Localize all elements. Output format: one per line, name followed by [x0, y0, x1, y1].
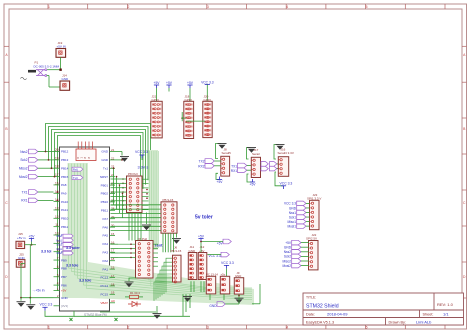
svg-text:Nss1: Nss1 — [289, 211, 296, 215]
wires J6 fan — [154, 258, 173, 301]
svg-text:VCC 3.3: VCC 3.3 — [280, 181, 293, 185]
wire J25 to GND rail — [21, 262, 25, 264]
svg-text:VCC 3.3: VCC 3.3 — [40, 302, 53, 306]
connector J8 Serail5 — [221, 156, 230, 176]
svg-text:VCC 3.3: VCC 3.3 — [135, 150, 148, 154]
svg-text:3.3 tole: 3.3 tole — [66, 263, 78, 267]
connector J12 +5V — [198, 253, 207, 280]
text 5v toler — [195, 214, 213, 220]
svg-text:6: 6 — [57, 265, 59, 269]
svg-text:REV: 1.0: REV: 1.0 — [437, 302, 454, 307]
svg-text:28: 28 — [111, 207, 115, 211]
svg-text:18: 18 — [111, 257, 115, 261]
svg-text:Drawn By:: Drawn By: — [389, 320, 407, 324]
svg-text:13: 13 — [55, 206, 59, 210]
svg-text:STM32 Shield: STM32 Shield — [306, 303, 339, 309]
mcu U3 pin +5V — [54, 287, 67, 293]
svg-text:1: 1 — [48, 5, 50, 9]
svg-text:29: 29 — [111, 215, 115, 219]
connector J15 — [16, 241, 25, 248]
svg-text:Text: Text — [155, 242, 164, 247]
power flag VCC 3.3 (J10) — [221, 261, 234, 276]
connector J25 — [16, 260, 25, 268]
svg-text:PC15: PC15 — [100, 293, 108, 297]
svg-text:VCC 3.3: VCC 3.3 — [201, 80, 214, 84]
wire +5V down — [29, 245, 31, 298]
wires crossing right of U3 — [113, 167, 124, 217]
text 3.3 toler — [66, 246, 80, 250]
svg-text:27: 27 — [111, 198, 115, 202]
svg-text:21: 21 — [111, 148, 115, 152]
wire bundle vertical (x150) — [149, 150, 159, 250]
ground (U3 GND) — [120, 157, 129, 162]
svg-text:PB9: PB9 — [61, 258, 67, 262]
svg-text:+5V IN: +5V IN — [57, 45, 66, 49]
svg-text:17: 17 — [111, 249, 115, 253]
text 3.3 tole 3 — [79, 278, 91, 282]
svg-text:PB 9-15: PB 9-15 — [171, 249, 182, 253]
svg-text:17: 17 — [55, 173, 59, 177]
power flag VCC33 (J16) — [275, 172, 292, 189]
svg-text:EasyEDA V5.1.3: EasyEDA V5.1.3 — [306, 320, 334, 324]
svg-text:PA8: PA8 — [61, 183, 67, 187]
svg-text:24: 24 — [111, 173, 115, 177]
net flag Sck2 — [20, 158, 53, 163]
svg-text:1: 1 — [48, 325, 50, 329]
svg-text:16: 16 — [111, 240, 115, 244]
svg-text:Serail5: Serail5 — [222, 151, 232, 155]
wire bundle vertical tails — [142, 248, 156, 286]
svg-text:4: 4 — [57, 282, 59, 286]
wires U3 right lower — [111, 244, 119, 257]
connector J15 label — [17, 232, 26, 240]
wire junctions (flags) — [45, 151, 59, 202]
svg-text:SPI1 3.3 V: SPI1 3.3 V — [307, 196, 321, 200]
wire J15 to +5V — [25, 242, 36, 246]
svg-text:PA10: PA10 — [61, 200, 68, 204]
svg-text:Nss2: Nss2 — [284, 250, 291, 254]
svg-text:4: 4 — [286, 325, 288, 329]
wire jack to J14 — [47, 76, 61, 88]
power flag +5V (spare) — [166, 81, 173, 92]
svg-text:Miso1: Miso1 — [287, 220, 296, 224]
net flag RX1 — [21, 198, 53, 203]
led D1 — [128, 302, 141, 307]
net flag RX2 — [198, 164, 221, 169]
resistor network P8 Pull label — [128, 172, 138, 176]
svg-text:2: 2 — [127, 5, 129, 9]
net labels RxU TxU — [72, 167, 83, 180]
svg-text:TX1: TX1 — [22, 190, 28, 194]
connector J23 label — [307, 193, 321, 201]
svg-text:Nss2: Nss2 — [20, 150, 27, 154]
svg-text:Miso2: Miso2 — [19, 167, 28, 171]
connector J16 Serail3 — [278, 157, 288, 177]
svg-text:→+5v in: →+5v in — [32, 288, 45, 292]
net flag in (J16 left) — [270, 162, 277, 171]
wires U3 to PB 9-15 — [111, 205, 162, 231]
svg-text:PB 9-15: PB 9-15 — [163, 198, 174, 202]
net flag VCC 3.3 (mid) — [208, 252, 230, 258]
net labels (Miso/Nss/Sck/Mosi bubbles) — [56, 234, 73, 255]
wires PB9-15 to J6 — [163, 233, 173, 252]
connector J18 GPIO — [184, 95, 194, 139]
svg-text:5: 5 — [57, 273, 59, 277]
power flag +5V inv (J8) — [216, 173, 223, 184]
svg-text:+5V: +5V — [217, 180, 224, 184]
svg-text:PB13: PB13 — [61, 158, 69, 162]
connector J20 GPIO — [203, 95, 212, 138]
wire right elbow — [252, 284, 260, 304]
svg-text:Mosi: Mosi — [57, 247, 63, 251]
ground (left 2) — [26, 298, 35, 310]
svg-text:Miso: Miso — [57, 234, 63, 238]
ground (below PB 9-15) — [172, 233, 181, 244]
svg-text:RX2: RX2 — [198, 165, 204, 169]
net flag +5V (mid) — [200, 239, 231, 245]
svg-text:PB15: PB15 — [61, 175, 69, 179]
connector J17 Serail — [251, 157, 260, 177]
svg-text:18: 18 — [55, 165, 59, 169]
wire GND rail — [20, 263, 53, 298]
svg-text:PA11: PA11 — [61, 208, 68, 212]
svg-text:Date:: Date: — [306, 313, 315, 317]
wire junctions (pull1 right) — [146, 189, 148, 199]
connector J21 GPIO — [151, 95, 162, 138]
connector P1 DC-005 — [21, 61, 60, 80]
svg-text:PA1: PA1 — [103, 267, 109, 271]
svg-text:+5V: +5V — [61, 289, 66, 293]
svg-text:3: 3 — [207, 325, 209, 329]
resistor R1 — [125, 291, 143, 298]
svg-text:Tx1: Tx1 — [103, 167, 108, 171]
wire junctions (pull1 left) — [122, 178, 124, 210]
wire bottom rail — [74, 312, 190, 316]
net flag RX1 (J17 left) — [231, 168, 252, 173]
svg-text:Sck1: Sck1 — [56, 243, 62, 247]
wire J18 to J20 — [186, 120, 205, 122]
connector J6 PB 9-15 — [173, 255, 182, 283]
svg-text:PC14: PC14 — [100, 284, 108, 288]
connector J23 SPI1 — [310, 200, 320, 229]
svg-text:PB12: PB12 — [61, 150, 69, 154]
connector J11 label — [189, 245, 197, 253]
wire J19 down — [47, 57, 62, 71]
mcu U3 right pins — [100, 148, 115, 297]
svg-text:16: 16 — [55, 181, 59, 185]
wire bundle vertical (through U3) — [0, 0, 1, 1]
ground (J8) — [216, 144, 227, 159]
svg-text:20: 20 — [55, 148, 59, 152]
mcu U3 left pins — [54, 148, 69, 287]
usb connector (on U3) — [76, 142, 96, 161]
svg-text:5: 5 — [366, 5, 368, 9]
svg-text:+5V: +5V — [29, 234, 36, 238]
svg-text:5: 5 — [366, 325, 368, 329]
svg-text:2: 2 — [127, 325, 129, 329]
svg-text:PB01: PB01 — [101, 183, 109, 187]
svg-text:+5V: +5V — [285, 241, 292, 245]
text Text — [155, 242, 164, 247]
wires pull1 to PA Pull — [129, 213, 141, 241]
net flag Nss2 — [20, 149, 53, 154]
svg-text:VCC 3.3: VCC 3.3 — [284, 202, 296, 206]
ground (below PA Pull) — [125, 278, 138, 287]
svg-text:PB6: PB6 — [61, 283, 67, 287]
mcu U3 name — [84, 313, 107, 317]
net flag TX1 (J17 left) — [231, 163, 251, 168]
svg-text:DC-005 5.5-2.1MM: DC-005 5.5-2.1MM — [34, 64, 60, 68]
svg-text:PB14: PB14 — [61, 166, 69, 170]
ground (left 1) — [17, 298, 26, 307]
net flags SPI1 — [284, 201, 310, 228]
mcu U3 pin VBAT — [100, 299, 115, 305]
connector PB 9-15 — [161, 202, 177, 233]
ground (J17) — [247, 148, 257, 160]
svg-text:17: 17 — [111, 274, 115, 278]
text 3.3 tole 2 — [66, 263, 78, 267]
svg-text:+5V: +5V — [217, 241, 224, 245]
svg-text:PC13: PC13 — [100, 276, 108, 280]
svg-text:+5V: +5V — [250, 183, 257, 187]
svg-text:Mosi2: Mosi2 — [19, 175, 28, 179]
svg-text:18: 18 — [111, 282, 115, 286]
svg-text:+5V: +5V — [198, 234, 205, 238]
title block — [303, 293, 464, 325]
connector J8 label — [222, 148, 232, 156]
svg-text:PB7: PB7 — [61, 275, 67, 279]
svg-text:Mosi2: Mosi2 — [282, 264, 291, 268]
connector J14 GND — [60, 74, 70, 91]
svg-text:4: 4 — [286, 5, 288, 9]
connector J9 label — [235, 271, 241, 278]
net flag Miso2 — [19, 166, 54, 171]
wires U3 to pull1 — [111, 179, 127, 209]
svg-text:11: 11 — [55, 223, 59, 227]
connector J5 label — [206, 272, 218, 276]
svg-text:GND: GND — [209, 304, 217, 308]
svg-text:GND: GND — [289, 206, 297, 210]
wires pull1 right — [142, 179, 153, 209]
ground (J16) — [274, 145, 285, 160]
ground (below J9) — [235, 294, 244, 303]
wires PA Pull right — [153, 244, 158, 266]
no-connect x1 — [70, 318, 73, 321]
svg-text:RX1: RX1 — [21, 199, 27, 203]
svg-text:Serail3 3.3V: Serail3 3.3V — [278, 151, 294, 155]
text 3.3V sur — [138, 166, 153, 170]
svg-text:TX1: TX1 — [231, 164, 237, 168]
connector J19 +5V IN — [56, 41, 66, 58]
connector J11 GND — [188, 253, 197, 280]
svg-text:PA7: PA7 — [103, 217, 109, 221]
svg-text:Miso2: Miso2 — [282, 259, 291, 263]
svg-text:GND: GND — [284, 246, 292, 250]
svg-text:[3V3]: [3V3] — [61, 304, 68, 308]
mcu U3 pin GND — [54, 294, 69, 300]
junction on J18 — [181, 112, 186, 121]
power flag VCC 3.3 (U3) — [135, 150, 148, 160]
svg-text:19: 19 — [55, 156, 59, 160]
wires below J5 — [183, 281, 224, 316]
power flag +5V inv (J17) — [247, 174, 256, 187]
svg-text:Sck1: Sck1 — [289, 215, 296, 219]
connector J10 label — [221, 272, 226, 276]
svg-text:GND: GND — [101, 150, 109, 154]
net flag out (J17 right) — [261, 162, 269, 171]
wire bundle elbow — [62, 163, 254, 305]
svg-text:PB11: PB11 — [101, 209, 108, 213]
mcu U3 pin 3V3 — [54, 304, 69, 308]
power flag VCC 3.3 (J20) — [201, 80, 214, 101]
svg-text:12: 12 — [55, 215, 59, 219]
svg-text:+5V in: +5V in — [17, 236, 26, 240]
resistor network PA Pull label — [138, 237, 148, 241]
net flag TX2 — [199, 159, 221, 164]
svg-text:GND: GND — [101, 158, 109, 162]
power flag +5V (J12) — [198, 234, 205, 252]
svg-text:PA3: PA3 — [103, 251, 109, 255]
svg-text:RxU: RxU — [73, 167, 78, 171]
power flag VCC 3.3 (bottom) — [40, 302, 53, 310]
svg-text:PB10: PB10 — [101, 200, 109, 204]
connector J6 label — [171, 246, 182, 254]
resistor network PA Pull — [136, 241, 154, 279]
connector J17 label — [252, 148, 260, 156]
ground (mid) — [142, 213, 151, 231]
svg-text:30: 30 — [111, 224, 115, 228]
svg-text:+5V: +5V — [187, 81, 194, 85]
svg-text:+5V: +5V — [154, 81, 161, 85]
connector J5 PC13-14 — [206, 276, 215, 294]
svg-text:19: 19 — [111, 291, 115, 295]
connector J12 label — [199, 245, 205, 253]
svg-text:PB10: PB10 — [61, 217, 69, 221]
svg-text:TITLE:: TITLE: — [306, 296, 316, 300]
svg-text:1/1: 1/1 — [443, 312, 449, 317]
svg-text:2018-04-09: 2018-04-09 — [327, 312, 348, 317]
svg-text:RX1: RX1 — [231, 169, 237, 173]
svg-text:Sck2: Sck2 — [20, 158, 27, 162]
svg-text:PB02: PB02 — [101, 192, 109, 196]
connector J25 label — [18, 252, 26, 260]
ground (below J5 area) — [183, 297, 192, 302]
svg-text:5v toler: 5v toler — [195, 214, 213, 220]
net flag GND (bottom) — [209, 297, 239, 308]
net flags SPI2 — [282, 240, 309, 268]
connector PB 9-15 label — [163, 198, 174, 202]
wires U3 GND — [115, 152, 123, 161]
svg-text:PA5: PA5 — [103, 234, 109, 238]
svg-text:Sheet:: Sheet: — [423, 313, 434, 317]
svg-text:TxU: TxU — [73, 176, 78, 180]
svg-text:Nss1: Nss1 — [56, 238, 62, 242]
net flag TX1 — [22, 190, 54, 195]
svg-text:3.3 tole: 3.3 tole — [79, 278, 91, 282]
wire +5V to J21 — [156, 88, 158, 101]
wires U3 to PA Pull — [118, 243, 136, 258]
svg-text:TX2: TX2 — [199, 160, 205, 164]
svg-text:R1 60.4: R1 60.4 — [130, 291, 140, 295]
svg-text:7: 7 — [57, 257, 59, 261]
svg-text:Mosi1: Mosi1 — [287, 224, 296, 228]
connector J10 — [220, 276, 229, 294]
mcu U3 body — [60, 147, 110, 311]
no-connect x2 — [115, 318, 118, 321]
connector J9 GND — [234, 278, 243, 294]
svg-text:NRST: NRST — [100, 175, 108, 179]
svg-text:15: 15 — [111, 232, 115, 236]
text 3.3 tole (left) — [41, 249, 51, 253]
svg-text:PA4: PA4 — [103, 242, 109, 246]
svg-text:PA9: PA9 — [61, 191, 67, 195]
connector J22 SPI2 — [309, 241, 319, 270]
svg-text:22: 22 — [111, 156, 115, 160]
resistor network P8 Pull — [127, 176, 143, 213]
svg-text:VBAT: VBAT — [100, 301, 108, 305]
svg-text:PB11: PB11 — [61, 225, 68, 229]
svg-text:Sck2: Sck2 — [284, 255, 291, 259]
svg-text:19: 19 — [111, 266, 115, 270]
svg-text:VCC 3.3: VCC 3.3 — [221, 261, 234, 265]
svg-text:Miso: Miso — [57, 251, 63, 255]
svg-text:PA2: PA2 — [103, 259, 109, 263]
power flag +5V (J21) — [154, 81, 161, 88]
svg-text:3.3 tol: 3.3 tol — [41, 249, 51, 253]
svg-text:+5V: +5V — [166, 81, 173, 85]
net flag Mosi2 — [19, 174, 54, 179]
svg-text:3.3 toler: 3.3 toler — [66, 246, 80, 250]
svg-text:Serail: Serail — [252, 152, 260, 156]
power flag +5V (J18) — [187, 81, 194, 101]
connector J16 label — [278, 148, 294, 156]
svg-text:PA6: PA6 — [103, 225, 109, 229]
wire VCC loop — [45, 311, 74, 317]
connector J22 label — [306, 233, 317, 241]
svg-text:Limi ALb: Limi ALb — [416, 319, 432, 324]
wires J17-J16 — [277, 164, 279, 169]
ground (bottom left) — [153, 306, 162, 319]
svg-text:GND: GND — [61, 296, 69, 300]
text +5v in arrow — [32, 288, 45, 292]
svg-text:3: 3 — [207, 5, 209, 9]
wire bus loops — [46, 124, 151, 291]
power flag +5V (J15) — [29, 234, 36, 241]
